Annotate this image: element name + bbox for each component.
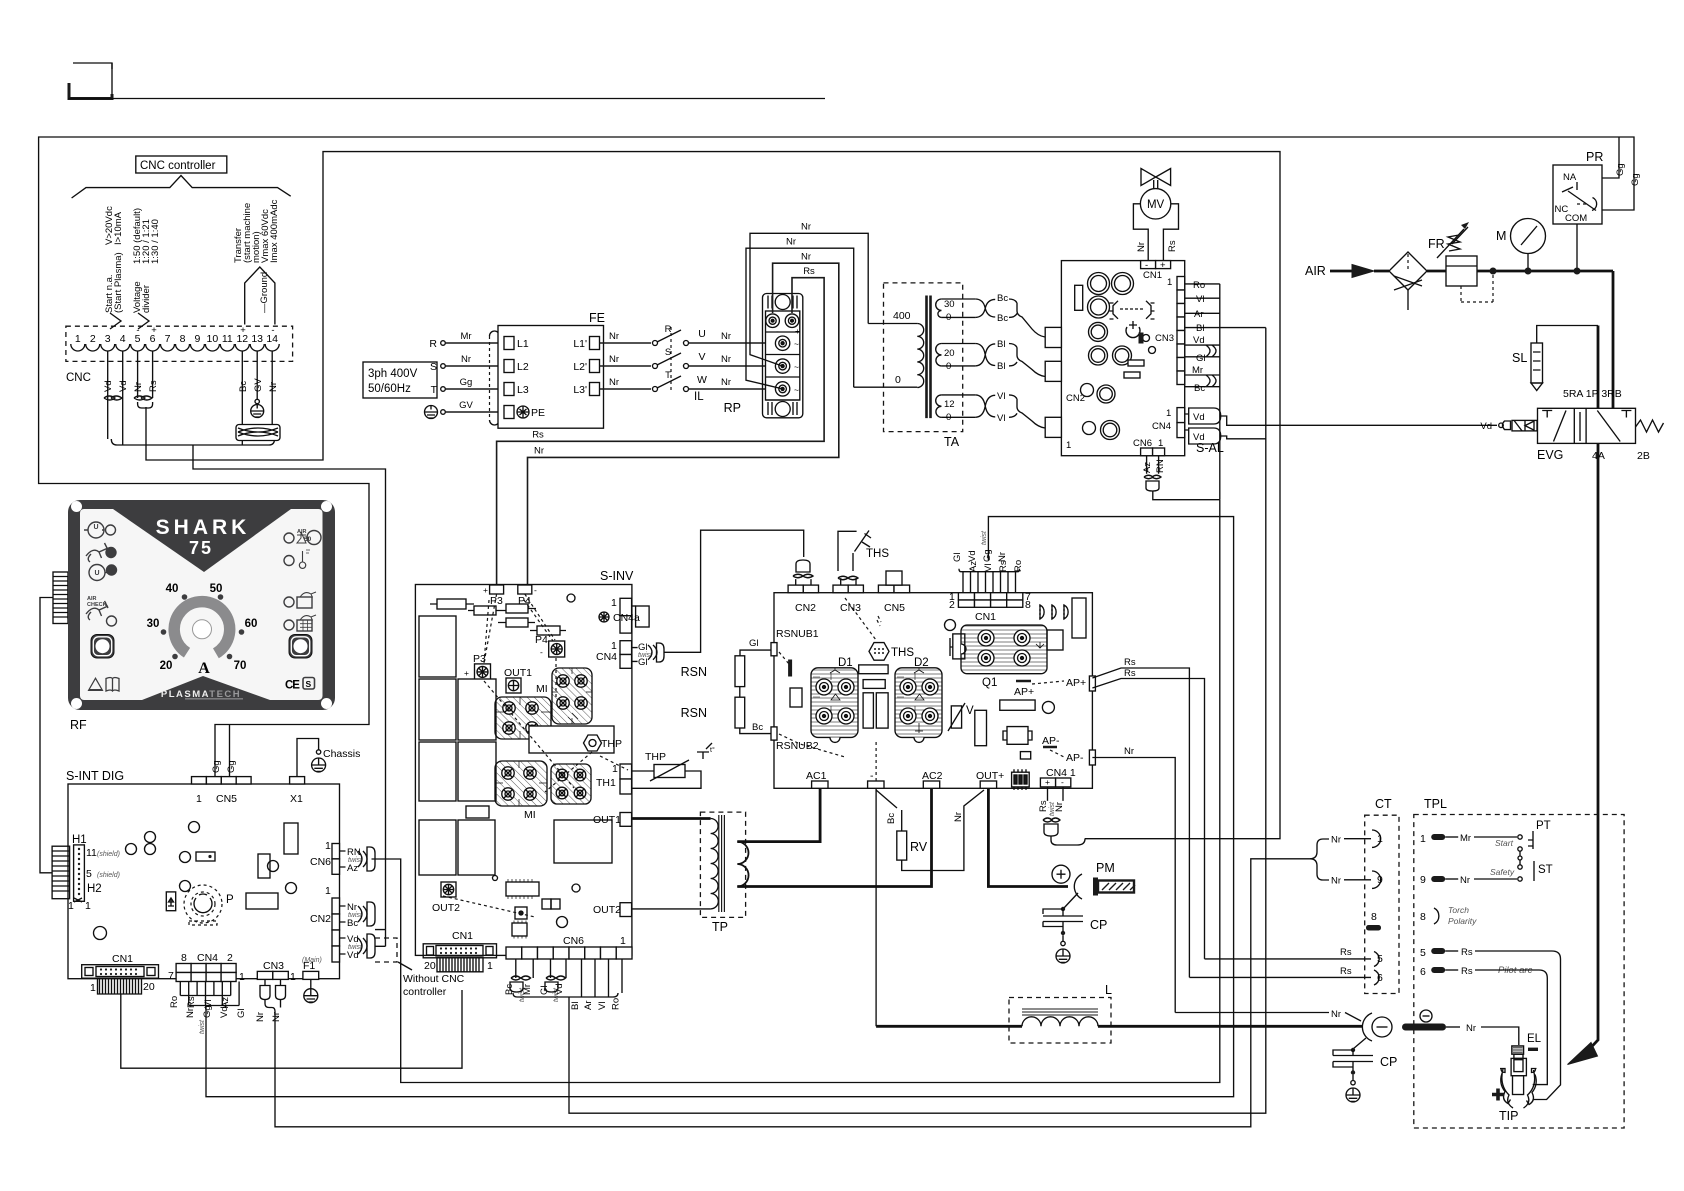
svg-text:Ar: Ar — [1194, 309, 1204, 320]
svg-text:Nr: Nr — [1136, 242, 1147, 252]
svg-text:S: S — [306, 679, 312, 689]
svg-text:CN6: CN6 — [563, 935, 584, 947]
svg-text:CN5: CN5 — [884, 602, 905, 614]
svg-text:6: 6 — [1420, 966, 1426, 978]
svg-text:THP: THP — [601, 738, 622, 750]
svg-text:CN2: CN2 — [310, 913, 331, 925]
svg-text:EVG: EVG — [1537, 448, 1563, 462]
svg-text:1: 1 — [75, 333, 81, 345]
svg-text:CN1: CN1 — [1143, 270, 1162, 281]
svg-text:3ph 400V: 3ph 400V — [368, 368, 418, 380]
svg-text:+: + — [483, 585, 488, 595]
svg-text:CN4: CN4 — [1152, 421, 1171, 432]
svg-text:Bc: Bc — [1194, 383, 1205, 394]
svg-text:OUT1: OUT1 — [593, 814, 621, 826]
svg-text:TP: TP — [712, 920, 728, 934]
svg-text:5: 5 — [1377, 953, 1383, 965]
svg-text:9: 9 — [1420, 874, 1426, 886]
svg-text:1: 1 — [325, 840, 331, 852]
svg-text:L3: L3 — [517, 384, 529, 396]
svg-text:Nr: Nr — [1124, 746, 1134, 757]
svg-text:AC2: AC2 — [922, 770, 943, 782]
svg-text:RF: RF — [70, 718, 87, 732]
svg-text:Nr: Nr — [1331, 1009, 1341, 1020]
svg-text:Bc: Bc — [347, 918, 358, 929]
svg-text:8: 8 — [180, 333, 186, 345]
svg-text:Rs: Rs — [1461, 947, 1473, 958]
svg-text:Nr: Nr — [1331, 876, 1341, 887]
svg-text:7: 7 — [168, 970, 174, 982]
svg-text:Gg: Gg — [982, 549, 993, 562]
svg-text:Chassis: Chassis — [323, 748, 360, 760]
svg-text:+: + — [1045, 777, 1050, 787]
svg-text:30: 30 — [147, 618, 160, 630]
svg-text:Nr: Nr — [1466, 1023, 1476, 1034]
svg-text:Nr: Nr — [461, 354, 471, 365]
svg-text:Torch: Torch — [1448, 905, 1469, 915]
svg-text:2: 2 — [949, 599, 955, 611]
svg-text:50/60Hz: 50/60Hz — [368, 383, 411, 395]
svg-text:1: 1 — [90, 982, 96, 994]
svg-text:AP-: AP- — [1066, 752, 1084, 764]
svg-text:CN1: CN1 — [112, 953, 133, 965]
svg-text:twist: twist — [199, 1019, 206, 1034]
svg-text:GV: GV — [253, 378, 264, 392]
svg-text:AP-: AP- — [1042, 735, 1060, 747]
svg-text:CN3: CN3 — [840, 602, 861, 614]
svg-text:6: 6 — [1377, 972, 1383, 984]
svg-text:3: 3 — [105, 333, 111, 345]
svg-text:11: 11 — [222, 333, 233, 345]
svg-text:I>10mA: I>10mA — [113, 211, 124, 245]
svg-text:Nr: Nr — [609, 354, 619, 365]
svg-text:1: 1 — [1066, 440, 1071, 451]
svg-text:Vd: Vd — [1193, 412, 1205, 423]
svg-text:CN3: CN3 — [1155, 333, 1174, 344]
svg-text:1: 1 — [487, 960, 493, 972]
svg-text:-: - — [534, 585, 537, 595]
svg-text:PM: PM — [1096, 861, 1115, 875]
svg-text:THS: THS — [866, 548, 889, 560]
svg-text:Nr: Nr — [997, 552, 1008, 562]
svg-text:Without CNC: Without CNC — [403, 973, 465, 985]
svg-text:RP: RP — [724, 401, 741, 415]
svg-text:P: P — [226, 894, 234, 906]
svg-text:CP: CP — [1090, 918, 1107, 932]
svg-text:Gg: Gg — [1630, 173, 1641, 186]
svg-text:Bc: Bc — [997, 293, 1008, 304]
svg-text:Nr: Nr — [609, 377, 619, 388]
svg-text:Ro: Ro — [1193, 280, 1205, 291]
svg-text:1: 1 — [611, 597, 617, 609]
svg-text:Vd: Vd — [118, 380, 129, 392]
svg-text:Vl: Vl — [597, 1002, 608, 1010]
svg-text:TH1: TH1 — [596, 777, 616, 789]
svg-text:F1: F1 — [303, 960, 315, 972]
svg-text:1: 1 — [1166, 408, 1171, 419]
svg-text:Safety: Safety — [1490, 867, 1515, 877]
svg-text:~: ~ — [794, 385, 799, 395]
svg-text:Gl: Gl — [749, 638, 759, 649]
svg-text:AIR: AIR — [1305, 264, 1326, 278]
svg-text:CN6: CN6 — [310, 856, 331, 868]
svg-text:Mr: Mr — [460, 331, 471, 342]
svg-text:12: 12 — [944, 399, 955, 410]
svg-text:Vl: Vl — [1196, 294, 1204, 305]
svg-text:L2: L2 — [517, 361, 529, 373]
svg-text:30: 30 — [944, 299, 955, 310]
svg-text:Vd: Vd — [103, 380, 114, 392]
svg-text:50: 50 — [304, 536, 312, 543]
svg-text:40: 40 — [166, 583, 179, 595]
svg-text:L: L — [1105, 983, 1112, 997]
svg-text:H2: H2 — [87, 883, 102, 895]
svg-text:S: S — [665, 347, 671, 358]
svg-text:Nr: Nr — [133, 382, 144, 392]
svg-text:ST: ST — [1538, 864, 1553, 876]
svg-text:CN4: CN4 — [197, 952, 218, 964]
svg-text:+: + — [151, 325, 157, 336]
svg-text:S-INT DIG: S-INT DIG — [66, 769, 124, 783]
svg-text:OUT+: OUT+ — [976, 770, 1004, 782]
svg-text:10: 10 — [207, 333, 219, 345]
svg-text:Bc: Bc — [752, 722, 763, 733]
svg-text:1: 1 — [68, 900, 74, 912]
svg-text:-: - — [870, 770, 874, 782]
svg-text:20: 20 — [160, 660, 173, 672]
svg-text:AP+: AP+ — [1014, 686, 1034, 698]
svg-text:Vd: Vd — [967, 550, 978, 562]
svg-text:Q1: Q1 — [982, 677, 997, 689]
svg-text:T: T — [665, 370, 671, 381]
svg-text:Ro: Ro — [1013, 560, 1024, 572]
svg-text:Imax 400mAdc: Imax 400mAdc — [269, 199, 280, 263]
svg-text:1: 1 — [290, 971, 296, 983]
svg-text:U: U — [698, 328, 706, 340]
svg-text:7: 7 — [165, 333, 171, 345]
svg-text:+: + — [464, 668, 469, 678]
svg-text:controller: controller — [403, 986, 447, 998]
svg-text:NA: NA — [1563, 172, 1577, 183]
svg-text:(shield): (shield) — [97, 851, 120, 858]
svg-text:SL: SL — [1512, 351, 1527, 365]
svg-text:X1: X1 — [290, 793, 303, 805]
svg-text:Start: Start — [1495, 838, 1514, 848]
svg-text:Rs: Rs — [1124, 657, 1136, 668]
svg-text:Gl: Gl — [1196, 353, 1206, 364]
svg-text:Bc: Bc — [997, 313, 1008, 324]
svg-text:Gl: Gl — [638, 657, 648, 668]
svg-text:CNC: CNC — [66, 372, 91, 384]
svg-text:400: 400 — [893, 310, 911, 322]
svg-text:Rs: Rs — [803, 266, 815, 277]
svg-text:Gg: Gg — [1615, 163, 1626, 176]
svg-text:THS: THS — [891, 647, 914, 659]
svg-text:CNC controller: CNC controller — [140, 160, 216, 172]
svg-text:SHARK: SHARK — [156, 516, 251, 539]
svg-text:CP: CP — [1380, 1055, 1397, 1069]
svg-text:11: 11 — [86, 847, 97, 859]
svg-text:FE: FE — [589, 311, 605, 325]
svg-text:CN5: CN5 — [216, 793, 237, 805]
svg-text:MI: MI — [536, 683, 548, 695]
svg-text:1: 1 — [1167, 277, 1172, 288]
svg-text:Rs: Rs — [1340, 966, 1352, 977]
svg-text:t°: t° — [710, 746, 715, 754]
svg-text:Nr: Nr — [1331, 835, 1341, 846]
svg-text:T: T — [431, 384, 438, 396]
svg-text:Nr: Nr — [786, 237, 796, 248]
svg-text:~: ~ — [794, 362, 799, 372]
svg-text:1: 1 — [620, 935, 626, 947]
svg-text:R: R — [665, 324, 672, 335]
svg-text:IL: IL — [694, 391, 704, 403]
svg-text:-: - — [136, 325, 139, 336]
svg-text:OUT1: OUT1 — [504, 667, 532, 679]
svg-text:L1: L1 — [517, 338, 529, 350]
svg-text:L2': L2' — [573, 361, 587, 373]
svg-text:V: V — [966, 705, 974, 717]
svg-text:CN6: CN6 — [1133, 438, 1152, 449]
svg-text:CN4a: CN4a — [613, 612, 640, 624]
svg-text:Az: Az — [1142, 462, 1153, 473]
svg-text:RN: RN — [1155, 459, 1166, 473]
svg-text:Nr: Nr — [721, 377, 731, 388]
svg-text:V: V — [698, 351, 705, 363]
svg-text:1: 1 — [1158, 438, 1163, 449]
svg-text:Vd: Vd — [1480, 421, 1492, 432]
svg-text:TA: TA — [944, 435, 960, 449]
svg-text:CT: CT — [1375, 797, 1392, 811]
svg-text:~: ~ — [794, 339, 799, 349]
svg-text:AP+: AP+ — [1066, 677, 1086, 689]
svg-text:CN1: CN1 — [452, 930, 473, 942]
svg-text:Mr: Mr — [1192, 365, 1203, 376]
svg-text:Rs: Rs — [186, 996, 197, 1008]
svg-text:2B: 2B — [1637, 450, 1650, 462]
svg-text:S-INV: S-INV — [600, 569, 634, 583]
svg-text:Vl: Vl — [997, 391, 1005, 402]
svg-text:MV: MV — [1147, 199, 1165, 211]
svg-text:A: A — [198, 660, 210, 677]
svg-text:Bl: Bl — [1196, 323, 1204, 334]
svg-text:Gg: Gg — [226, 760, 237, 773]
svg-text:Vl: Vl — [997, 413, 1005, 424]
svg-text:1: 1 — [1377, 833, 1383, 845]
svg-text:2: 2 — [90, 333, 96, 345]
svg-text:twist: twist — [553, 987, 560, 1002]
svg-text:Rs: Rs — [532, 430, 544, 441]
svg-text:1: 1 — [196, 793, 202, 805]
svg-text:Vd: Vd — [1193, 335, 1205, 346]
svg-text:0: 0 — [946, 361, 951, 372]
svg-text:divider: divider — [141, 285, 152, 313]
svg-text:5: 5 — [86, 868, 92, 880]
svg-text:Polarity: Polarity — [1448, 916, 1477, 926]
svg-text:Mr: Mr — [1460, 833, 1471, 844]
svg-text:(Start Plasma): (Start Plasma) — [113, 252, 124, 313]
svg-text:RV: RV — [910, 840, 928, 854]
svg-text:8: 8 — [1371, 911, 1377, 923]
svg-text:4: 4 — [120, 333, 126, 345]
svg-text:—Ground: —Ground — [259, 272, 270, 313]
svg-text:75: 75 — [189, 538, 213, 558]
svg-text:RSNUB2: RSNUB2 — [776, 740, 819, 752]
svg-text:(shield): (shield) — [97, 872, 120, 879]
svg-text:Vl: Vl — [203, 1000, 214, 1008]
svg-text:20: 20 — [424, 960, 436, 972]
svg-text:TPL: TPL — [1424, 797, 1447, 811]
svg-text:RSN: RSN — [681, 706, 707, 720]
svg-text:1: 1 — [1420, 833, 1426, 845]
svg-text:-: - — [540, 647, 543, 657]
svg-text:+: + — [795, 326, 800, 336]
svg-text:TIP: TIP — [1499, 1109, 1518, 1123]
svg-text:9: 9 — [1377, 874, 1383, 886]
svg-text:Az: Az — [220, 997, 231, 1008]
svg-text:Vl: Vl — [983, 564, 994, 572]
svg-text:GV: GV — [459, 400, 473, 411]
svg-text:2: 2 — [227, 952, 233, 964]
svg-text:Bc: Bc — [886, 813, 897, 824]
svg-text:-: - — [271, 325, 274, 336]
svg-text:M: M — [1496, 229, 1506, 243]
svg-text:Nr: Nr — [1054, 802, 1065, 812]
svg-text:20: 20 — [143, 981, 155, 993]
svg-text:H1: H1 — [72, 834, 87, 846]
svg-text:70: 70 — [234, 660, 247, 672]
svg-text:CN1: CN1 — [975, 611, 996, 623]
svg-text:AIR: AIR — [297, 529, 307, 535]
svg-text:S: S — [430, 361, 437, 373]
svg-text:twist: twist — [981, 530, 988, 545]
svg-text:1: 1 — [85, 900, 91, 912]
svg-text:RSNUB1: RSNUB1 — [776, 628, 819, 640]
svg-text:OUT2: OUT2 — [432, 902, 460, 914]
svg-text:1:30 / 1:40: 1:30 / 1:40 — [150, 219, 161, 264]
svg-text:CN2: CN2 — [795, 602, 816, 614]
svg-text:20: 20 — [944, 348, 955, 359]
svg-text:Vd: Vd — [1193, 432, 1205, 443]
svg-text:Bl: Bl — [997, 339, 1005, 350]
svg-text:0: 0 — [895, 374, 901, 386]
svg-text:Rs: Rs — [1340, 947, 1352, 958]
svg-text:RSN: RSN — [681, 665, 707, 679]
svg-text:0: 0 — [946, 412, 951, 423]
svg-text:Ar: Ar — [583, 1001, 594, 1011]
svg-text:5: 5 — [1420, 947, 1426, 959]
svg-text:Nr: Nr — [534, 446, 544, 457]
svg-text:Nr: Nr — [268, 382, 279, 392]
svg-text:Gl: Gl — [952, 553, 963, 563]
svg-text:Bl: Bl — [570, 1002, 581, 1010]
svg-text:Nr: Nr — [255, 1012, 266, 1022]
svg-text:Nr: Nr — [721, 354, 731, 365]
svg-text:Vd: Vd — [347, 950, 359, 961]
svg-text:5RA 1P 3RB: 5RA 1P 3RB — [1563, 388, 1622, 400]
svg-text:Nr: Nr — [801, 252, 811, 263]
svg-text:Nr: Nr — [801, 222, 811, 233]
svg-text:U: U — [93, 524, 98, 531]
svg-text:1: 1 — [239, 971, 245, 983]
svg-text:-: - — [1061, 777, 1064, 787]
svg-text:8: 8 — [1025, 599, 1031, 611]
svg-text:Gg: Gg — [211, 760, 222, 773]
svg-text:FR: FR — [1428, 237, 1445, 251]
svg-text:Bc: Bc — [238, 381, 249, 392]
svg-text:R: R — [429, 338, 437, 350]
svg-text:COM: COM — [1565, 213, 1587, 224]
svg-text:9: 9 — [194, 333, 200, 345]
svg-text:OUT2: OUT2 — [593, 904, 621, 916]
svg-text:Nr: Nr — [609, 331, 619, 342]
svg-text:CE: CE — [285, 680, 300, 692]
svg-text:60: 60 — [245, 618, 258, 630]
svg-text:Rs: Rs — [148, 380, 159, 392]
svg-text:PT: PT — [1536, 820, 1551, 832]
svg-text:-: - — [776, 326, 779, 336]
svg-text:CN3: CN3 — [263, 960, 284, 972]
svg-text:PE: PE — [531, 407, 545, 419]
svg-text:Rs: Rs — [1038, 800, 1049, 812]
svg-text:Ro: Ro — [611, 998, 622, 1010]
svg-text:1: 1 — [325, 885, 331, 897]
svg-text:MI: MI — [524, 809, 536, 821]
svg-text:U: U — [94, 570, 99, 577]
svg-text:L1': L1' — [573, 338, 587, 350]
svg-text:EL: EL — [1527, 1033, 1542, 1045]
svg-text:P4: P4 — [535, 634, 548, 646]
svg-text:0: 0 — [946, 312, 951, 323]
svg-text:Rs: Rs — [1167, 240, 1178, 252]
svg-text:Nr: Nr — [185, 1008, 196, 1018]
svg-text:Gg: Gg — [460, 377, 473, 388]
svg-text:Nr: Nr — [953, 812, 964, 822]
svg-text:8: 8 — [181, 952, 187, 964]
svg-text:PR: PR — [1586, 150, 1603, 164]
svg-text:50: 50 — [210, 583, 223, 595]
svg-text:CN4: CN4 — [596, 651, 617, 663]
svg-text:W: W — [697, 374, 707, 386]
svg-text:Nr: Nr — [271, 1012, 282, 1022]
svg-text:13: 13 — [251, 333, 263, 345]
svg-text:Nr: Nr — [721, 331, 731, 342]
svg-text:L3': L3' — [573, 384, 587, 396]
svg-text:+: + — [240, 325, 246, 336]
svg-text:Az: Az — [347, 863, 358, 874]
svg-text:8: 8 — [1420, 911, 1426, 923]
svg-text:Gl: Gl — [236, 1009, 247, 1019]
svg-text:Rs: Rs — [1461, 966, 1473, 977]
svg-text:THP: THP — [645, 751, 666, 763]
svg-text:Nr: Nr — [1460, 875, 1470, 886]
svg-text:Rs: Rs — [1124, 668, 1136, 679]
svg-text:Ro: Ro — [169, 996, 180, 1008]
svg-text:CHECK: CHECK — [87, 602, 107, 608]
svg-text:Bl: Bl — [997, 361, 1005, 372]
svg-text:AC1: AC1 — [806, 770, 827, 782]
